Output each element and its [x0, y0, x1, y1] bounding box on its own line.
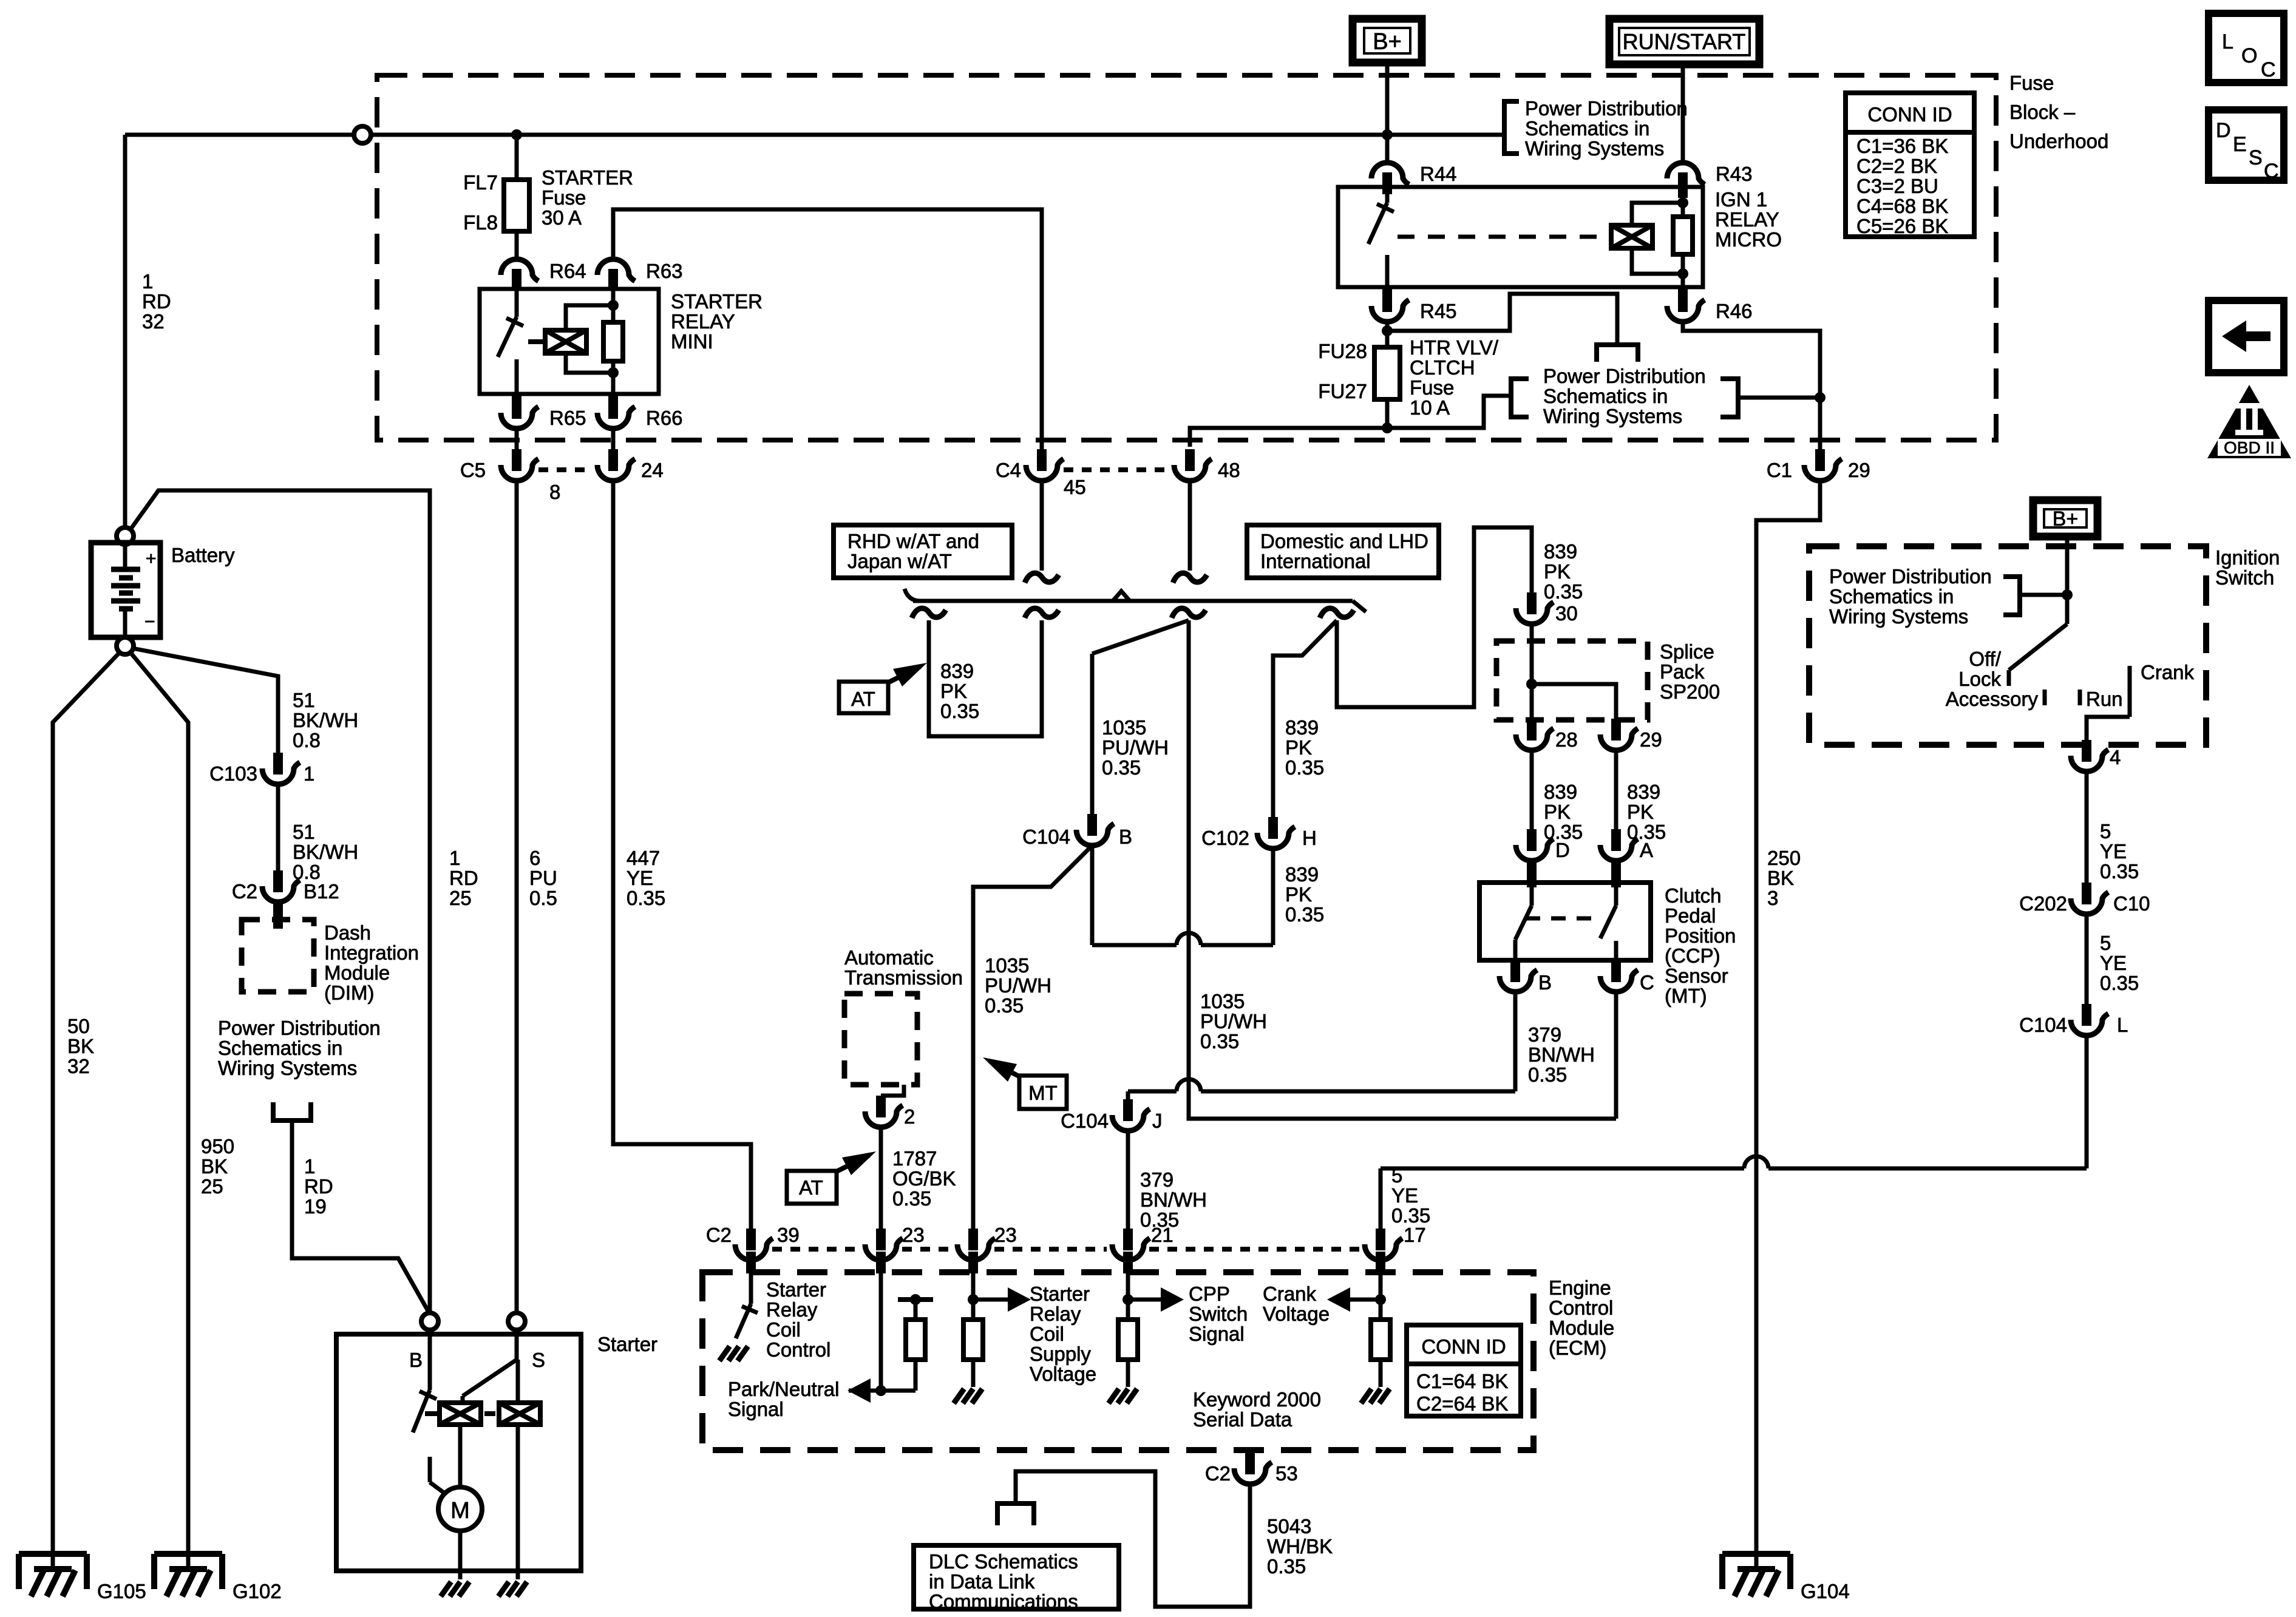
wire: crank contact to connector 4 — [2087, 717, 2130, 740]
wire: pin23 AT into ECM — [876, 1252, 886, 1273]
svg-text:L: L — [2117, 1014, 2128, 1036]
dotted link C5 row — [538, 467, 591, 472]
connector R66 — [608, 394, 618, 413]
svg-text:C104: C104 — [1061, 1110, 1109, 1132]
svg-text:2: 2 — [904, 1105, 915, 1128]
connector C5 pin 24 — [611, 429, 616, 449]
ground G104 — [1722, 1551, 1790, 1557]
svg-text:28: 28 — [1555, 728, 1578, 751]
bracket under left PD label — [273, 1102, 311, 1120]
svg-text:R46: R46 — [1716, 300, 1753, 322]
arrow from AT box 2 — [834, 1155, 869, 1173]
CONN ID table (ECM) — [1407, 1325, 1521, 1416]
ground: pin17 — [1379, 1389, 1390, 1403]
wire: B+ to ignition feed — [2065, 537, 2070, 595]
ground: starter motor — [459, 1582, 469, 1596]
svg-text:C104: C104 — [2019, 1014, 2067, 1036]
svg-text:B: B — [409, 1349, 423, 1371]
wire: pin21 into ECM — [1123, 1252, 1133, 1273]
wire: C4 48 down to options (tail) — [1188, 481, 1192, 571]
wire: long 1035 PU/WH vertical to CCP C link — [1189, 620, 1616, 1119]
connector A — [1611, 829, 1621, 851]
svg-text:EngineControlModule(ECM): EngineControlModule(ECM) — [1549, 1276, 1614, 1359]
wire: R46 to C1 pin 29 — [1683, 322, 1820, 449]
svg-text:−: − — [144, 612, 155, 632]
options bus line — [913, 599, 1353, 603]
wire: pin23 MT into ECM — [968, 1252, 978, 1273]
wire: S to solenoid coils — [515, 1330, 519, 1360]
node: battery positive — [117, 527, 134, 544]
svg-text:8: 8 — [549, 481, 560, 503]
svg-text:O: O — [2241, 44, 2257, 67]
RHD w/AT and Japan w/AT box — [834, 525, 1012, 578]
svg-text:B+: B+ — [1373, 29, 1402, 55]
fuse FU28/FU27 (HTR VLV/CLTCH 10 A) — [1385, 331, 1390, 347]
svg-text:C1=36 BKC2=2 BKC3=2 BUC4=68 BK: C1=36 BKC2=2 BKC3=2 BUC4=68 BKC5=26 BK — [1856, 135, 1948, 237]
svg-text:R64: R64 — [549, 260, 586, 282]
connector R63 — [597, 259, 635, 281]
connector C1 pin 29 — [1815, 449, 1825, 471]
wire: C104 B to ECM 23 (1035 PU/WH MT) — [973, 846, 1092, 1229]
svg-text:C2: C2 — [232, 880, 257, 903]
svg-text:S: S — [532, 1349, 545, 1371]
CCP sensor box — [1479, 883, 1651, 960]
B+ terminal box (ignition) — [2033, 500, 2097, 537]
IGN 1 relay micro box — [1338, 187, 1703, 287]
svg-text:C2: C2 — [1205, 1462, 1231, 1485]
svg-text:CONN ID: CONN ID — [1421, 1335, 1506, 1358]
splice pack SP200 dashed box — [1496, 641, 1648, 720]
wire: option joint 4 to C102 H (839 PK) — [1273, 620, 1337, 817]
connector B (CCP) — [1510, 960, 1520, 976]
svg-text:C104: C104 — [1022, 825, 1070, 848]
connector 4 (ignition) — [2082, 740, 2091, 762]
svg-text:24: 24 — [641, 459, 664, 481]
svg-text:C202: C202 — [2019, 892, 2067, 915]
wire: 29 to A (839 PK) — [1614, 750, 1618, 829]
svg-text:D: D — [2216, 119, 2231, 142]
inline option joint (45) — [1025, 573, 1059, 583]
svg-text:Run: Run — [2086, 688, 2123, 710]
inline option joint (48) — [1173, 573, 1207, 583]
svg-text:C1: C1 — [1767, 459, 1792, 481]
ECM resistor (pin21) — [1126, 1300, 1130, 1320]
ECM connector row dotted line — [772, 1247, 860, 1252]
wire: hold-in coil to ground — [516, 1425, 520, 1579]
ECM resistor (pin23 MT) — [971, 1300, 976, 1320]
junction: rail to B+/R44 — [1382, 129, 1393, 140]
connector 28 — [1527, 719, 1537, 741]
svg-text:C1=64 BKC2=64 BK: C1=64 BKC2=64 BK — [1416, 1370, 1508, 1415]
option joint 2 (AT loop right) — [1025, 608, 1059, 618]
AT flag box 2 — [787, 1171, 837, 1204]
wire: rail down to battery + (1 RD 32) — [123, 135, 127, 527]
svg-text:30: 30 — [1555, 602, 1578, 625]
svg-text:1: 1 — [304, 762, 314, 785]
option joint 1 (AT loop left) — [912, 608, 946, 618]
connector C (CCP) — [1611, 960, 1621, 976]
wire: starter switch to motor — [430, 1482, 446, 1494]
svg-text:H: H — [1302, 827, 1317, 849]
ignition switch dashed box — [1809, 546, 2206, 745]
wire: right bracket to C1 drop — [1738, 396, 1820, 400]
wire+arrow: Park/Neutral signal — [849, 1389, 915, 1393]
connector C104 pin B — [1087, 814, 1097, 836]
wire: option joint 4 down to splice pack — [1337, 527, 1532, 707]
DESC icon — [2209, 110, 2284, 180]
wire: splice 30 to junction — [1530, 624, 1534, 719]
svg-text:G105: G105 — [97, 1580, 146, 1602]
wire: 4 to C202 (5 YE) — [2085, 771, 2089, 883]
svg-text:C2: C2 — [706, 1224, 732, 1246]
label: Power Distribution Schematics in Wiring Systems (top right) with bracket — [1504, 101, 1519, 154]
OBD II icon — [2207, 385, 2291, 458]
ECM resistor (pin17) — [1379, 1300, 1383, 1320]
wire: 2 to ECM 23 (1787 OG/BK) — [879, 1127, 883, 1229]
svg-text:CONN ID: CONN ID — [1867, 103, 1952, 126]
connector C4 pin 45 — [1037, 449, 1047, 471]
option joint 4 (839 wire) — [1320, 608, 1354, 618]
svg-text:Accessory: Accessory — [1946, 688, 2039, 710]
MT flag box — [1019, 1076, 1067, 1109]
svg-text:Crank: Crank — [2141, 661, 2195, 683]
node: battery negative — [117, 637, 134, 654]
wire: splice junction to 29 drop — [1532, 684, 1616, 719]
svg-text:G102: G102 — [233, 1580, 282, 1602]
svg-text:R43: R43 — [1716, 163, 1753, 185]
svg-text:B: B — [1119, 825, 1132, 848]
connector R46 — [1678, 287, 1688, 306]
starter motor M — [438, 1487, 482, 1531]
svg-text:C103: C103 — [209, 762, 257, 785]
connector D — [1527, 829, 1537, 851]
starter solenoid pull-in coil — [440, 1403, 481, 1425]
wire: R45 to power-distribution bracket — [1387, 294, 1617, 345]
DLC Schematics box — [914, 1545, 1119, 1609]
connector R45 — [1382, 287, 1392, 306]
svg-text:IgnitionSwitch: IgnitionSwitch — [2215, 546, 2280, 589]
wire: C2 B12 into DIM — [273, 900, 283, 929]
Dash Integration Module dashed box — [242, 920, 314, 992]
wire: rail to fuse FL7 — [515, 135, 519, 180]
wire: C5 8 down to starter S (6 PU 0.5) — [515, 481, 519, 1313]
ground: pin39 driver — [738, 1346, 748, 1361]
IGN1 relay dashed coupling — [1398, 235, 1608, 239]
AT flag box 1 — [839, 682, 888, 713]
wire: 53 to DLC routing (5043 WH/BK) — [1016, 1471, 1250, 1607]
starter relay mini box — [480, 289, 659, 394]
svg-text:C: C — [2261, 58, 2276, 81]
svg-text:39: 39 — [777, 1224, 800, 1246]
arrow from MT box — [990, 1061, 1021, 1077]
connector C2 pin 23 (AT) — [876, 1229, 886, 1250]
connector C104 pin J — [1123, 1099, 1133, 1121]
svg-text:B12: B12 — [304, 880, 339, 903]
contact Off/Lock — [2007, 670, 2011, 686]
svg-text:C102: C102 — [1201, 827, 1249, 849]
bracket left of PD label from FU27 — [1511, 379, 1529, 417]
wire: C104 J to ECM 21 — [1126, 1128, 1130, 1229]
connector R64 — [501, 259, 538, 281]
wire: C4 45 down to options (tail) — [1040, 481, 1044, 571]
svg-text:C: C — [2264, 160, 2279, 183]
wire: AT box to connector 2 — [881, 1085, 904, 1096]
wire: C202 to C104 L (5 YE) — [2085, 914, 2089, 1004]
wire+arrow: Crank Voltage — [1348, 1298, 1381, 1302]
starter box — [336, 1334, 581, 1571]
svg-text:AT: AT — [851, 688, 875, 710]
bracket above DLC box — [997, 1503, 1034, 1525]
connector C5 pin 8 — [515, 429, 519, 449]
svg-text:21: 21 — [1151, 1224, 1173, 1246]
connector R65 — [512, 394, 521, 413]
svg-text:MT: MT — [1028, 1082, 1058, 1104]
wire: C104 L to ECM 17 (5 YE) — [2085, 1036, 2089, 1168]
connector C2 pin 17 — [1376, 1229, 1385, 1250]
Engine Control Module dashed box — [702, 1272, 1533, 1450]
svg-text:M: M — [450, 1498, 470, 1524]
wire: AT option loop 839 PK — [929, 620, 1042, 736]
starter relay resistor — [608, 270, 618, 290]
wire: B+ box down to rail — [1385, 63, 1390, 135]
wire: C103 to C2 B12 — [276, 784, 280, 870]
wire+arrow: CPP Switch Signal — [1128, 1298, 1161, 1302]
IGN1 relay coil — [1611, 225, 1652, 248]
wire: pin17 into ECM — [1376, 1252, 1385, 1273]
svg-text:53: 53 — [1275, 1462, 1298, 1485]
svg-text:A: A — [1640, 839, 1653, 861]
starter relay coil — [545, 330, 586, 353]
left-arrow icon — [2209, 300, 2284, 373]
svg-text:R65: R65 — [549, 407, 586, 429]
ground: starter solenoid — [517, 1582, 527, 1596]
svg-text:48: 48 — [1218, 459, 1240, 481]
starter relay switch — [515, 289, 519, 317]
svg-text:OBD II: OBD II — [2224, 438, 2275, 457]
svg-text:E: E — [2233, 133, 2247, 156]
connector C4 pin 48 — [1185, 449, 1195, 471]
connector R44 — [1385, 135, 1390, 163]
starter switch from B — [428, 1330, 432, 1390]
connector C2 pin 21 — [1123, 1229, 1133, 1250]
wire: battery B+ feed rail — [125, 133, 1504, 137]
svg-text:17: 17 — [1404, 1224, 1426, 1246]
wire: FU27 junction to left bracket — [1387, 396, 1511, 428]
contact Accessory — [2043, 690, 2047, 705]
connector C103 pin 1 — [273, 753, 283, 775]
svg-text:Starter: Starter — [597, 1333, 657, 1355]
wire: fuse junction to C4 pin 48 — [1190, 428, 1387, 447]
svg-text:D: D — [1555, 839, 1570, 861]
ground G105 — [19, 1551, 87, 1557]
option joint 3 (1035 wire) — [1172, 608, 1206, 618]
connector R43 — [1667, 163, 1705, 185]
wire: battery feed to starter B (1 RD 25) — [131, 490, 430, 1313]
wire: battery to C103 (51 BK/WH 0.8) — [132, 648, 278, 753]
svg-text:R44: R44 — [1420, 163, 1457, 185]
connector C202 pin C10 — [2082, 883, 2091, 904]
connector C2 pin 53 — [1245, 1450, 1255, 1468]
svg-text:J: J — [1152, 1110, 1163, 1132]
wire: R45 junction — [1385, 322, 1390, 331]
svg-text:FU27: FU27 — [1318, 380, 1367, 402]
svg-text:29: 29 — [1848, 459, 1870, 481]
connector C104 pin L — [2082, 1004, 2091, 1026]
svg-text:45: 45 — [1064, 476, 1086, 498]
node: starter S terminal — [508, 1313, 525, 1330]
contact Run — [2078, 690, 2082, 705]
arrow from AT box 1 — [886, 666, 920, 683]
wire: bracket to ignition feed — [2020, 593, 2067, 597]
ECM pin39 driver switch — [746, 1252, 756, 1273]
wire+arrow: Starter Relay Coil Supply Voltage — [973, 1298, 1008, 1302]
svg-text:FL7: FL7 — [463, 171, 498, 194]
svg-text:4: 4 — [2110, 746, 2121, 768]
ground: pin21 — [1127, 1389, 1137, 1403]
wire: 28 to D (839 PK) — [1530, 750, 1534, 829]
contact Crank — [2128, 666, 2132, 717]
wire: battery to G102 (950 BK 25) — [130, 652, 188, 1569]
connector 29 — [1611, 719, 1621, 741]
bracket right of PD label to C1 wire — [1720, 379, 1738, 417]
connector 30 (splice pack) — [1527, 592, 1537, 614]
wire: R63 up and over to C4 pin 45 — [613, 209, 1042, 449]
connector C2 pin B12 — [273, 870, 283, 892]
svg-text:23: 23 — [902, 1224, 925, 1246]
ignition switch wiper — [2065, 595, 2070, 624]
svg-text:AT: AT — [799, 1176, 823, 1199]
Automatic Transmission dashed box — [844, 994, 917, 1085]
node: bulkhead pass-through circle — [354, 126, 371, 143]
svg-text:FL8: FL8 — [463, 211, 498, 234]
ground: pin23 MT — [972, 1389, 982, 1403]
svg-text:RUN/START: RUN/START — [1623, 29, 1746, 54]
wire: CCP B to C104 J (379 BN/WH) — [1513, 992, 1518, 1091]
wire: CCP C down to 1035 link — [1614, 992, 1618, 1119]
svg-text:R63: R63 — [646, 260, 683, 282]
Domestic and LHD International box — [1247, 525, 1439, 578]
RUN/START terminal box — [1609, 19, 1759, 64]
ground G102 — [154, 1551, 222, 1557]
svg-text:Battery: Battery — [171, 544, 235, 566]
CCP switch coupling dashes — [1526, 917, 1600, 921]
B+ terminal box (top) — [1353, 19, 1422, 63]
node: starter B terminal — [421, 1313, 438, 1330]
wire: motor to ground — [458, 1531, 463, 1579]
svg-text:C5: C5 — [460, 459, 486, 481]
svg-text:+: + — [146, 549, 157, 569]
svg-text:L: L — [2222, 30, 2233, 53]
junction: rail to FL7 fuse — [511, 129, 522, 140]
IGN1 relay switch — [1385, 187, 1390, 203]
connector C2 pin 39 — [746, 1229, 756, 1250]
CCP switch right — [1611, 858, 1621, 887]
battery — [91, 543, 160, 637]
connector C102 pin H — [1268, 817, 1278, 839]
IGN1 relay resistor — [1678, 187, 1688, 198]
wire: C1 29 down to G104 (250 BK 3) — [1756, 481, 1820, 1569]
CCP switch left — [1527, 858, 1537, 887]
wire: battery to G105 (50 BK 32) — [53, 652, 120, 1569]
dotted link C4 row — [1064, 467, 1168, 472]
wire: PD bracket to starter B node (1 RD 19) — [292, 1120, 430, 1314]
svg-text:C: C — [1640, 971, 1654, 994]
ECM pullup resistor (pin23 AT) — [898, 1297, 933, 1302]
svg-text:29: 29 — [1640, 728, 1662, 751]
fuse block underhood dashed border — [377, 75, 1996, 440]
wire: option joint 3 to C104 B (1035 PU/WH) — [1092, 620, 1189, 654]
svg-text:C10: C10 — [2113, 892, 2150, 915]
wire: fuse to R64 — [515, 231, 519, 259]
connector 2 (AT) — [876, 1096, 886, 1117]
svg-text:S: S — [2249, 146, 2263, 169]
svg-text:C4: C4 — [996, 459, 1021, 481]
CONN ID table (fuse block) — [1846, 93, 1974, 237]
wire: pull-in coil to motor — [458, 1425, 463, 1486]
svg-text:FU28: FU28 — [1318, 340, 1367, 362]
svg-text:R66: R66 — [646, 407, 683, 429]
starter solenoid hold-in coil — [499, 1403, 540, 1425]
LOC icon — [2209, 13, 2284, 83]
wire: RUN/START down to R43 — [1681, 64, 1685, 160]
fuse FL7/FL8 (STARTER Fuse 30 A) — [504, 180, 529, 231]
svg-text:23: 23 — [994, 1224, 1017, 1246]
svg-text:B+: B+ — [2053, 507, 2079, 531]
connector C2 pin 23 (MT) — [968, 1229, 978, 1250]
svg-text:R45: R45 — [1420, 300, 1457, 322]
wire: C5 24 down (447 YE) to ECM 39 — [613, 481, 751, 1229]
svg-text:G104: G104 — [1801, 1580, 1850, 1602]
svg-text:B: B — [1538, 971, 1552, 994]
wire: C104 B lower 839 link to C102 H — [1090, 846, 1095, 945]
